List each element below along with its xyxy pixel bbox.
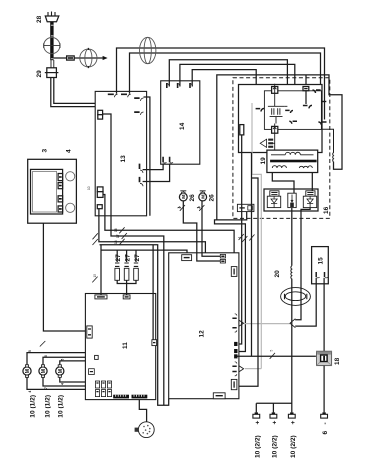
display unit 3/4 [28, 159, 77, 223]
unit 14 bottom pins [163, 157, 173, 163]
svg-text:10 (2/2): 10 (2/2) [290, 435, 297, 458]
display knobs [66, 172, 75, 213]
wire feed C to unit 14 pin1 and amplifier [169, 60, 287, 109]
svg-text:4: 4 [66, 149, 73, 153]
wire to unit 11 right pin [152, 245, 154, 340]
svg-text:18: 18 [334, 357, 341, 365]
svg-text:4: 4 [28, 391, 32, 393]
junction arrow into box 12 (upper) [237, 319, 244, 328]
svg-text:M: M [41, 369, 47, 373]
unit 13 right-edge pins [140, 164, 144, 187]
svg-text:16: 16 [323, 206, 330, 214]
svg-text:17: 17 [116, 234, 120, 238]
earth connection box 18 [317, 351, 332, 365]
wire amplifier output to earth lead [251, 153, 253, 357]
svg-text:4: 4 [178, 207, 182, 209]
unit 12 right tall pins [231, 267, 237, 390]
relay 15 [312, 247, 329, 284]
terminal 10 (2/2) right [288, 412, 295, 418]
amplifier pin (d2) [289, 121, 297, 124]
svg-text:12: 12 [199, 330, 206, 338]
svg-text:M: M [200, 195, 205, 199]
svg-text:4: 4 [238, 237, 242, 239]
wire unit 11 to microphone [139, 400, 146, 422]
control unit 12 [169, 253, 239, 399]
svg-text:29: 29 [36, 70, 43, 78]
svg-text:27: 27 [125, 254, 132, 262]
wire feed F to motors bus and right coil [217, 75, 342, 220]
svg-text:27: 27 [134, 254, 141, 262]
wire top pin of 13 (lower) [130, 53, 321, 94]
wires loudspeakers to unit 11 [27, 353, 85, 390]
svg-text:6: 6 [44, 355, 48, 357]
amplifier supply symbol upper (square with arrow) [272, 84, 278, 95]
svg-text:10 (1/2): 10 (1/2) [29, 395, 36, 418]
unit 11 top pin connectors [95, 295, 130, 299]
wire slash on earth lead [270, 353, 275, 359]
svg-text:20: 20 [274, 270, 281, 278]
svg-text:+: + [290, 421, 297, 425]
wire box 18 to earth terminal 6 [323, 366, 325, 413]
screened lead symbol on branch [80, 48, 97, 68]
svg-text:10 (2/2): 10 (2/2) [254, 435, 261, 458]
svg-text:M: M [25, 369, 31, 373]
svg-text:28: 28 [36, 15, 43, 23]
amplifier pin (d) [303, 105, 312, 108]
svg-text:10: 10 [87, 186, 91, 190]
wire unit 13 left pin to box 12 [103, 195, 234, 267]
unit 12 bottom pin connector [213, 393, 225, 399]
ferrite ring on leads [281, 288, 311, 306]
wire slash on unit 11 supply [92, 277, 97, 283]
aerial amplifier assembly 16 (dashed) [233, 78, 330, 219]
svg-text:M: M [181, 195, 186, 199]
wire connector to box 12 square pin [215, 212, 247, 352]
svg-text:19: 19 [260, 157, 267, 165]
svg-text:3: 3 [42, 149, 49, 153]
svg-text:26: 26 [208, 194, 215, 202]
relay 15 pins [316, 272, 328, 278]
svg-text:+: + [271, 421, 278, 425]
wire display to control unit 11 [43, 223, 86, 331]
amplifier pin (a2) [323, 101, 327, 103]
terminal 10 (2/2) left [253, 403, 292, 418]
svg-text:+: + [254, 421, 261, 425]
screen sphere on aerial lead [44, 38, 60, 54]
loudspeaker 10 (1/2) centre [39, 365, 47, 378]
wire supply to unit 11 pin [100, 245, 102, 295]
unit 12 internal input wires [197, 253, 221, 261]
svg-text:11: 11 [122, 342, 129, 349]
arrow end of branch [103, 56, 108, 60]
svg-text:5: 5 [28, 350, 32, 352]
connector on amplifier supply [237, 204, 254, 211]
amplifier pin (b) [313, 90, 321, 93]
thermo element centre [288, 193, 296, 207]
transistor stage in amplifier [268, 95, 288, 124]
wire feed E to unit 14 pin3 and amplifier [192, 70, 256, 106]
loudspeaker 10 (1/2) right [56, 365, 64, 378]
svg-text:26: 26 [189, 194, 196, 202]
svg-text:10 (1/2): 10 (1/2) [44, 395, 51, 418]
coax from 29 to unit 13 (inner conductor) [54, 78, 144, 104]
svg-text:5: 5 [61, 359, 65, 361]
wire rectifier centre output down (through coil 20) [291, 208, 293, 413]
aerial connector 29 [45, 60, 59, 78]
wire slash on display lead [40, 341, 46, 347]
aerial 28 [45, 12, 59, 22]
unit 13 top pins [108, 94, 131, 97]
svg-text:18: 18 [114, 240, 118, 244]
wire relay 15 to junction [295, 278, 316, 326]
svg-text:10 (2/2): 10 (2/2) [271, 435, 278, 458]
svg-text:14: 14 [179, 122, 186, 130]
wire rail to box 12 lower left [100, 245, 169, 405]
motor 26 left [179, 191, 187, 201]
unit 12 top-left pin connector [182, 255, 192, 261]
grey wire from amplifier to box 12 junction [245, 103, 290, 369]
tiny pin numbers [28, 207, 202, 393]
wire transformer to rectifier right [311, 173, 313, 191]
amplifier small fuse box [303, 87, 309, 105]
wire unit 13 internal vertical to box 12 [103, 114, 164, 405]
unit 11 right edge pin block [152, 340, 157, 346]
motor M letters [181, 195, 205, 199]
unit 11 speaker pin rect [95, 355, 99, 359]
svg-text:27: 27 [115, 254, 122, 262]
unit 12 right edge pins [232, 314, 237, 376]
control unit 11 [85, 294, 155, 400]
unit 13 inner antenna pins [134, 98, 143, 115]
wire rectifier right output to junction [295, 208, 310, 320]
rectifier assembly in 16 [264, 189, 318, 211]
aerial coax cable (screened) [50, 22, 54, 60]
svg-text:4: 4 [61, 383, 65, 385]
amplifier pin (a) [318, 122, 326, 125]
svg-text:4: 4 [198, 207, 202, 209]
unit 13 left pin blocks [97, 110, 103, 208]
wire top pin of 13 to screen ellipse (upper) [117, 48, 325, 120]
svg-text:15: 15 [318, 257, 325, 265]
microphone [135, 422, 155, 438]
coil 20 [290, 266, 293, 279]
wire unit 13 right pin2 to unit 14 bottom pin2 [143, 164, 170, 182]
svg-text:7: 7 [44, 387, 48, 389]
wire fuse bus to box 12 [101, 250, 187, 255]
amplifier supply symbol lower (square with arrow) [272, 124, 278, 134]
wire transformer to rectifier left [272, 173, 294, 194]
svg-text:15: 15 [93, 274, 97, 278]
wire slashes on unit 13 leads [93, 227, 127, 245]
svg-text:10 (1/2): 10 (1/2) [58, 395, 65, 418]
svg-text:13: 13 [120, 155, 127, 163]
fuses 27 [115, 250, 138, 280]
screen ellipse near units 13/14 [140, 37, 156, 63]
wire motor 26 left to box 12 [183, 201, 197, 253]
svg-text:6: 6 [322, 431, 329, 435]
wire aerial branch to suppression filter [54, 57, 103, 59]
wire unit 13 lower pin to box 12 [99, 209, 205, 253]
transformer 19 [267, 150, 318, 172]
wire branch to tall pin of unit 12 [238, 178, 259, 386]
interference suppression filter (inline) [67, 56, 75, 60]
loudspeaker 10 (1/2) left [23, 365, 31, 378]
wire amplifier left pin down to box 12 square pin [238, 135, 242, 344]
wire unit 13 right pin1 to unit 14 bottom pin1 [143, 164, 164, 170]
zener diode element left [267, 191, 280, 208]
amplifier inner unit [239, 85, 323, 153]
pin block on 16 left edge [240, 125, 244, 135]
wire feed D to unit 14 pin2 and amplifier [180, 64, 295, 119]
amplifier pin (c) [285, 110, 293, 113]
unit 12 right square pins [234, 342, 237, 359]
junction arrow at rectifier output [290, 319, 295, 328]
terminal 10 (2/2) centre [270, 403, 277, 418]
zener diode element right [303, 191, 316, 208]
wire relay 15 to earth box 18 [323, 278, 325, 351]
control unit 14 [161, 81, 200, 164]
wire stub to fuse box in amplifier [305, 75, 307, 87]
motor 26 right [199, 191, 207, 201]
wire slashes on 16 leads [239, 234, 255, 242]
earth terminal 6 [321, 412, 328, 418]
wire slashes under motors 26 [178, 205, 205, 211]
wire unit 12 earth lead to box 18 [238, 355, 316, 357]
unit 11 bottom connector combs [113, 395, 147, 399]
wire motor 26 right to box 12 [201, 201, 203, 253]
inline connector pair on amplifier output [260, 133, 275, 150]
svg-text:16: 16 [114, 228, 118, 232]
unit 11 left edge pin block [87, 326, 92, 338]
svg-text:M: M [58, 369, 64, 373]
junction arrow into box 12 (lower) [237, 364, 244, 373]
wire fuse outputs to unit 11 [117, 280, 136, 295]
amplifier pin (left) [256, 109, 264, 112]
unit 14 top pins [166, 83, 192, 88]
wire from unit 13 top-right pin down right side [144, 97, 150, 216]
display buttons [58, 174, 63, 213]
loudspeaker M letters [25, 369, 64, 373]
amplifier stage box [264, 91, 321, 130]
coil on feed F [322, 129, 334, 162]
control unit 13 (radio) [95, 91, 146, 215]
svg-text:-: - [322, 422, 329, 424]
unit 11 pin cluster [89, 369, 112, 397]
svg-text:5: 5 [270, 350, 274, 352]
coax from 29 to unit 13 (screen) [51, 78, 145, 112]
